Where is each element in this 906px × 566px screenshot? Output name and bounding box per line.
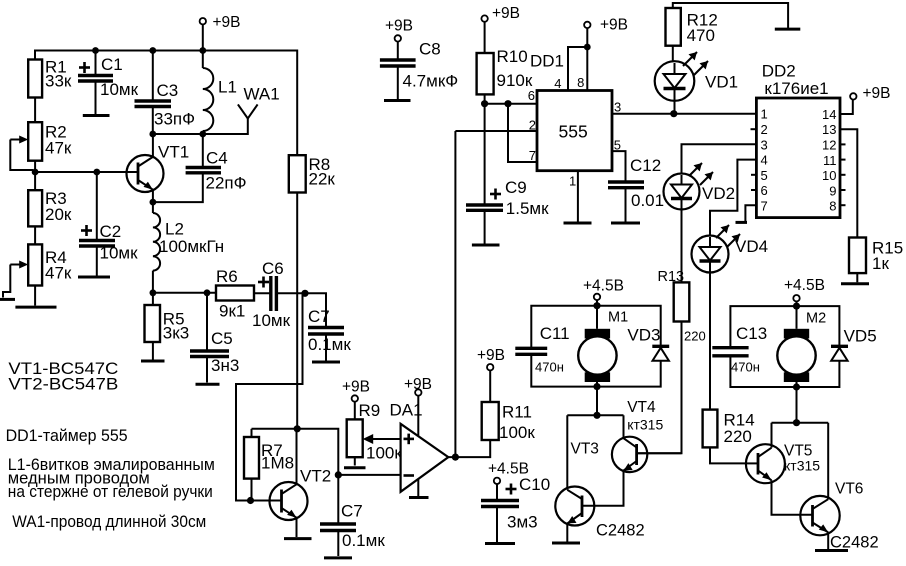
ground divider chain: [15, 306, 56, 309]
node L2-R5: [150, 289, 157, 296]
capacitor C12: [608, 156, 664, 222]
svg-text:C12: C12: [630, 156, 661, 175]
wire R4-ground: [34, 286, 36, 306]
+9V terminal R9: [342, 379, 370, 402]
+9V terminal R10: [481, 5, 520, 22]
node L1-C4: [199, 131, 206, 138]
svg-text:+4.5В: +4.5В: [784, 277, 825, 294]
capacitor C9: [466, 104, 549, 244]
svg-text:3: 3: [761, 137, 768, 152]
capacitor C13: [712, 324, 767, 375]
node base-C2: [93, 169, 100, 176]
svg-text:10мк: 10мк: [100, 80, 139, 99]
svg-text:1: 1: [569, 174, 576, 189]
ground C12: [611, 222, 640, 225]
svg-text:555: 555: [559, 122, 588, 142]
wire pin11 stub DD2: [840, 159, 846, 161]
node VT2 collector: [294, 425, 301, 432]
wire pin6 node: [485, 103, 537, 105]
ground VT3: [552, 542, 580, 545]
ground R5: [141, 360, 165, 363]
wire pin3 to DD2: [612, 113, 756, 115]
svg-text:7: 7: [761, 199, 768, 214]
svg-text:DD1-таймер 555: DD1-таймер 555: [6, 426, 128, 445]
node M1 driver: [593, 412, 600, 419]
ground C8: [384, 99, 411, 102]
svg-text:9к1: 9к1: [219, 302, 245, 321]
+4.5V terminal M2: [784, 277, 825, 301]
svg-text:R11: R11: [502, 403, 532, 422]
capacitor C11: [515, 324, 569, 375]
+9V terminal C8: [385, 18, 413, 42]
node collector-C3: [149, 131, 156, 138]
wire pin14 power: [840, 100, 853, 114]
ground C2: [78, 276, 110, 279]
svg-text:C2482: C2482: [596, 522, 645, 540]
svg-text:3м3: 3м3: [507, 513, 538, 532]
ground C1: [83, 114, 110, 117]
svg-text:+9В: +9В: [863, 85, 891, 102]
svg-text:470н: 470н: [731, 360, 760, 375]
wire 555 power bracket: [568, 28, 587, 91]
svg-text:1: 1: [761, 107, 768, 122]
svg-text:47к: 47к: [45, 264, 72, 283]
node M1 bottom: [593, 383, 600, 390]
svg-text:4: 4: [554, 76, 561, 91]
resistor R3: [28, 189, 72, 226]
svg-text:100мкГн: 100мкГн: [159, 237, 224, 256]
ground DA1: [409, 479, 429, 498]
wire pin1: [577, 171, 579, 222]
svg-text:3: 3: [614, 100, 621, 115]
potentiometer R4: [3, 244, 72, 297]
svg-text:C1: C1: [101, 55, 123, 74]
svg-text:12: 12: [822, 138, 836, 153]
op-amp DA1: [390, 401, 449, 492]
svg-text:L2: L2: [165, 220, 184, 239]
svg-text:10мк: 10мк: [100, 244, 139, 263]
wire pin13 to R15: [840, 129, 857, 237]
svg-text:VD4: VD4: [735, 237, 768, 256]
svg-text:VT1: VT1: [158, 143, 189, 162]
svg-text:VT4: VT4: [627, 399, 656, 416]
wire R1-R2: [34, 98, 36, 123]
svg-text:VT2-BC547B: VT2-BC547B: [8, 375, 118, 394]
svg-text:C7: C7: [341, 502, 363, 521]
resistor R7: [244, 429, 294, 501]
svg-text:4: 4: [761, 153, 768, 168]
wire pin5 stub DD2: [751, 174, 756, 176]
transistor VT2: [251, 429, 332, 537]
svg-text:VD2: VD2: [702, 184, 735, 203]
svg-text:C4: C4: [206, 149, 228, 168]
svg-text:22пФ: 22пФ: [206, 174, 247, 193]
wire oscillator out: [153, 292, 216, 294]
svg-text:5: 5: [761, 168, 768, 183]
wire M1 loop: [531, 300, 660, 387]
node R7-VT2 base: [247, 497, 254, 504]
wire pin10 stub DD2: [840, 174, 846, 176]
wire pin8 stub: [586, 47, 588, 91]
wire R3-R4: [34, 226, 36, 244]
wire pin7 ground: [745, 205, 756, 221]
inductor L1: [203, 51, 237, 135]
potentiometer R9: [347, 401, 403, 466]
svg-text:220: 220: [684, 329, 706, 344]
ground pin1: [564, 222, 592, 225]
resistor R5: [145, 293, 190, 360]
+9V terminal top left: [200, 14, 241, 51]
svg-text:C2482: C2482: [830, 534, 879, 552]
wire pin4 to VD4: [710, 160, 756, 236]
svg-text:0.01: 0.01: [631, 191, 664, 210]
svg-text:+9В: +9В: [404, 376, 432, 393]
svg-text:1к: 1к: [872, 254, 889, 273]
svg-text:+9В: +9В: [477, 347, 505, 364]
svg-text:7: 7: [529, 148, 536, 163]
svg-text:0.1мк: 0.1мк: [308, 335, 351, 354]
wire M2 loop: [730, 301, 839, 387]
resistor R14: [703, 410, 755, 464]
svg-text:C13: C13: [736, 324, 767, 343]
svg-text:33к: 33к: [45, 72, 72, 91]
svg-text:кт315: кт315: [627, 417, 663, 433]
svg-text:22к: 22к: [309, 170, 336, 189]
wire top right feed: [673, 3, 788, 28]
LED VD2: [664, 163, 736, 210]
svg-text:1M8: 1M8: [261, 454, 294, 473]
svg-text:VT2: VT2: [300, 467, 331, 486]
wire DA1 output riser: [448, 131, 455, 457]
note text VT types: [8, 359, 118, 394]
ground R15: [841, 282, 869, 285]
IC DD1 555: [528, 51, 621, 188]
svg-text:+9В: +9В: [600, 17, 628, 34]
svg-text:4.7мкФ: 4.7мкФ: [403, 72, 459, 91]
+9V terminal 555: [584, 17, 628, 34]
ground C10: [485, 542, 515, 545]
node DA1 output: [452, 454, 459, 461]
node rail-L1: [199, 47, 206, 54]
resistor R6: [216, 267, 254, 321]
potentiometer R2: [10, 122, 72, 170]
node emitter-C4: [150, 199, 157, 206]
svg-text:R10: R10: [497, 47, 528, 66]
wire collector line: [153, 133, 203, 135]
capacitor C1: [78, 51, 139, 116]
+9V terminal DD2: [850, 85, 890, 102]
capacitor C8: [380, 40, 458, 100]
svg-text:220: 220: [724, 427, 752, 446]
capacitor C10: [481, 475, 550, 542]
resistor R13: [637, 210, 706, 454]
capacitor C2: [79, 172, 138, 277]
ground C5: [196, 383, 220, 386]
svg-text:470: 470: [687, 26, 715, 45]
svg-text:2: 2: [761, 122, 768, 137]
svg-text:к176ие1: к176ие1: [764, 79, 828, 98]
svg-text:+4.5В: +4.5В: [583, 278, 624, 295]
svg-text:R13: R13: [658, 269, 685, 285]
svg-text:C3: C3: [157, 81, 179, 100]
+4.5V terminal M1: [583, 278, 624, 301]
svg-text:13: 13: [822, 122, 836, 137]
svg-text:R9: R9: [359, 401, 381, 420]
wire pin2: [455, 130, 537, 132]
svg-text:WA1-провод длинной 30см: WA1-провод длинной 30см: [12, 512, 206, 531]
wire DA1 minus input: [338, 474, 400, 476]
node C5 tap: [204, 289, 211, 296]
ground C7 second: [324, 556, 352, 559]
ground top right: [775, 28, 801, 31]
ground C7 first: [312, 361, 340, 364]
ground R4 wiper: [0, 298, 15, 301]
wire pin5 to C12: [612, 151, 626, 182]
wire pin8 stub DD2: [840, 204, 846, 206]
svg-text:+9В: +9В: [213, 14, 241, 31]
svg-text:C2: C2: [100, 222, 122, 241]
capacitor C7 first: [305, 293, 351, 360]
svg-text:+9В: +9В: [342, 379, 370, 396]
svg-text:33пФ: 33пФ: [154, 110, 195, 129]
svg-text:3к3: 3к3: [163, 324, 189, 343]
diode VD3: [627, 326, 669, 361]
svg-text:10: 10: [822, 168, 836, 183]
svg-text:C11: C11: [540, 324, 570, 343]
svg-text:C10: C10: [519, 475, 550, 494]
ground VT6: [815, 549, 848, 552]
svg-text:6: 6: [528, 88, 535, 103]
svg-text:VD5: VD5: [844, 327, 877, 346]
node pin6 riser: [504, 100, 511, 107]
svg-text:C6: C6: [262, 259, 284, 278]
svg-text:C7: C7: [308, 307, 330, 326]
node C7b tap: [335, 471, 342, 478]
transistor VT6: [800, 423, 878, 552]
svg-text:14: 14: [822, 107, 836, 122]
resistor R10: [477, 22, 533, 104]
wire R2-R3: [34, 161, 36, 191]
svg-text:M1: M1: [608, 310, 628, 326]
svg-text:9: 9: [829, 183, 836, 198]
svg-text:VT6: VT6: [835, 481, 863, 498]
ground VT2 emitter: [284, 537, 312, 540]
node R10-C9: [481, 100, 488, 107]
node M2 driver: [793, 419, 800, 426]
diode VD5: [831, 327, 877, 361]
resistor R12: [666, 8, 718, 61]
svg-text:на стержне от гелевой ручки: на стержне от гелевой ручки: [8, 482, 213, 501]
node 555 power: [584, 44, 591, 51]
svg-text:VD1: VD1: [705, 73, 738, 92]
svg-text:470н: 470н: [535, 360, 564, 375]
capacitor C7 second: [320, 475, 385, 556]
resistor R1: [28, 58, 72, 98]
svg-text:10мк: 10мк: [252, 311, 291, 330]
svg-text:0.1мк: 0.1мк: [342, 531, 385, 550]
resistor R8: [289, 155, 336, 429]
node M2 top: [793, 303, 800, 310]
capacitor C6: [252, 259, 305, 330]
node M2 bottom: [793, 383, 800, 390]
capacitor C5: [190, 293, 239, 383]
wire pin12 stub DD2: [840, 143, 846, 145]
node M1 top: [593, 302, 600, 309]
antenna WA1: [203, 85, 280, 135]
LED VD1: [655, 52, 738, 114]
wire M2 bottom node: [772, 387, 829, 423]
wire pin9 stub DD2: [840, 189, 846, 191]
node VD1 cathode: [670, 110, 677, 117]
transistor VT4: [582, 399, 682, 506]
node rail-C3: [149, 47, 156, 54]
wire pin6 stub DD2: [751, 189, 756, 191]
wire DA1 output to R11: [455, 440, 490, 457]
svg-text:C5: C5: [211, 329, 233, 348]
wire base: [35, 171, 126, 173]
motor M2: [777, 311, 826, 383]
svg-text:L1: L1: [218, 78, 237, 97]
+9V terminal R11: [477, 347, 505, 402]
note text L1: [8, 455, 215, 501]
svg-text:2: 2: [529, 118, 536, 133]
svg-text:+9В: +9В: [385, 18, 413, 35]
wire pin7 riser: [508, 104, 537, 162]
+9V terminal DA1: [404, 376, 432, 436]
svg-text:M2: M2: [806, 311, 826, 327]
node C6-C7: [301, 290, 308, 297]
svg-text:кт315: кт315: [784, 458, 820, 474]
resistor R15: [849, 238, 903, 283]
svg-text:VD3: VD3: [627, 326, 660, 345]
wire M1 bottom node: [567, 387, 623, 416]
svg-text:VT3: VT3: [571, 441, 599, 458]
svg-text:3н3: 3н3: [211, 356, 239, 375]
capacitor C4: [153, 134, 247, 202]
svg-text:C8: C8: [419, 40, 441, 59]
transistor VT3: [555, 415, 644, 541]
svg-text:+9В: +9В: [492, 5, 520, 22]
svg-text:8: 8: [829, 199, 836, 214]
svg-text:47к: 47к: [45, 139, 72, 158]
svg-text:WA1: WA1: [244, 85, 280, 104]
resistor R11: [482, 402, 536, 442]
node base divider: [32, 169, 39, 176]
wire +9V rail: [35, 51, 297, 156]
svg-text:100к: 100к: [499, 423, 535, 442]
transistor VT1: [127, 134, 190, 202]
svg-text:C9: C9: [505, 178, 527, 197]
svg-text:8: 8: [577, 75, 584, 90]
svg-text:100к: 100к: [366, 444, 402, 463]
capacitor C3: [135, 51, 196, 135]
transistor VT5: [746, 423, 820, 515]
inductor L2: [153, 202, 224, 293]
motor M1: [578, 310, 628, 383]
svg-text:DD1: DD1: [530, 51, 564, 70]
ground C9: [472, 244, 500, 247]
node rail-C1: [92, 47, 99, 54]
wire C6 node to base network: [236, 293, 305, 500]
wire pin2 stub DD2: [751, 128, 757, 130]
svg-text:R6: R6: [216, 267, 238, 286]
+4.5V terminal C10: [488, 461, 529, 484]
IC DD2: [756, 62, 840, 218]
wire collector node VT2: [252, 429, 339, 475]
wire pin3 to VD2: [682, 144, 757, 173]
svg-text:DD2: DD2: [762, 62, 796, 81]
svg-text:1.5мк: 1.5мк: [506, 199, 549, 218]
ground pin7 DD2: [736, 221, 748, 224]
svg-text:20к: 20к: [45, 205, 72, 224]
svg-text:6: 6: [761, 183, 768, 198]
svg-text:11: 11: [823, 153, 837, 168]
ground R9: [344, 466, 366, 469]
LED VD4: [692, 225, 769, 410]
